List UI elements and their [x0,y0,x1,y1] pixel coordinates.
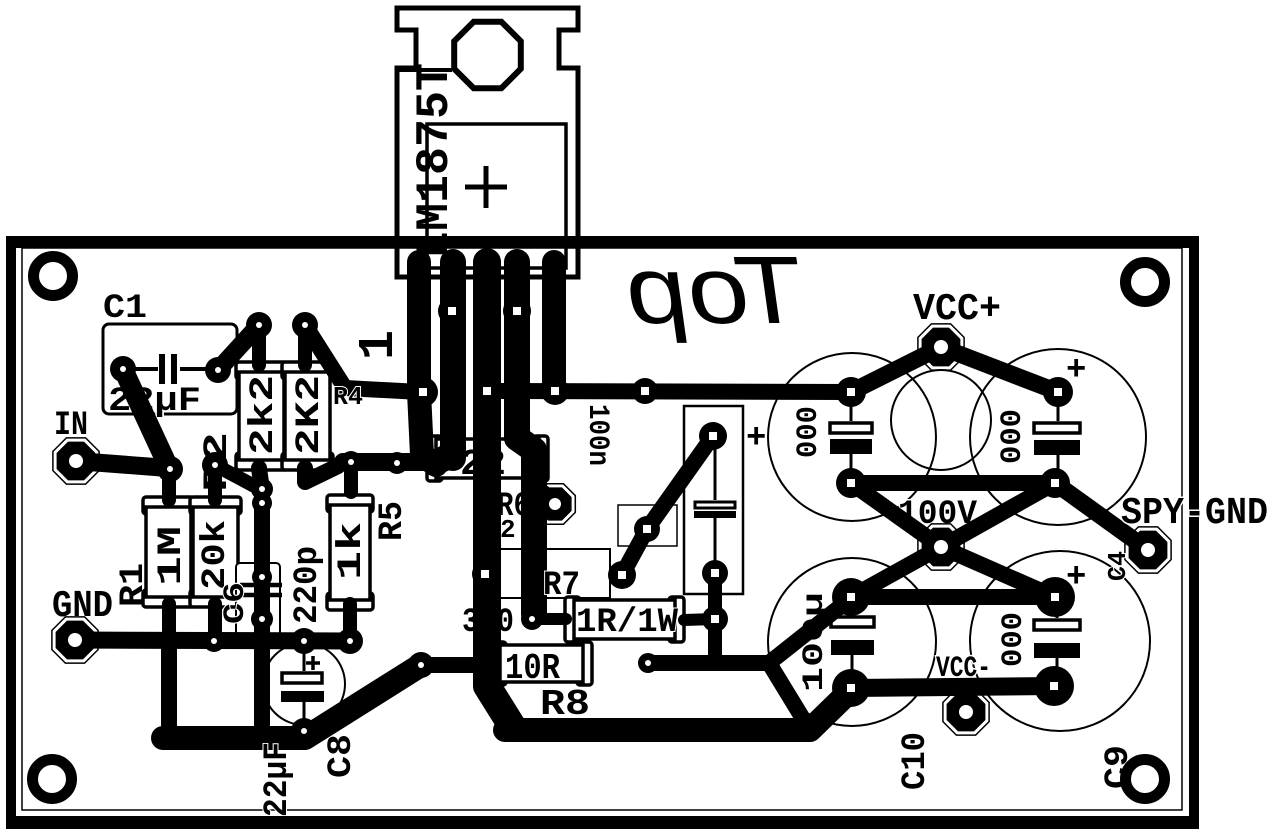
wire X junction arm UL [851,483,941,547]
wire output trace y391 [487,391,851,392]
wire IN to node [76,461,168,468]
via x262 b [252,567,272,587]
wire R5 bottom stub [343,604,357,641]
pad bus corner [408,652,434,678]
pad C10 bottom [832,669,870,707]
pad R7 left [472,561,498,587]
wire R2 bottom stub [208,604,222,641]
pad C8 bottom [291,718,317,744]
capacitor C3 outline rect [684,406,743,594]
small outline near R6 [618,505,677,546]
svg-text:R8: R8 [540,684,590,725]
wire pin4 down [517,262,534,614]
pad pin4 [503,297,531,325]
pad C2 bottom [836,468,866,498]
resistor body 22R [427,436,548,481]
wire R3 bottom to net [259,468,262,725]
wire trace y597 [851,589,1055,605]
svg-text:20k: 20k [197,520,235,590]
pad 1R1W left [521,608,543,630]
svg-text:SPY-GND: SPY-GND [1121,492,1268,535]
capacitor C10 body circle [768,558,936,726]
pad R7 right [608,561,636,589]
pad C2 top [836,377,866,407]
svg-text:C8: C8 [323,734,361,778]
svg-text:+: + [1066,559,1086,597]
wire C3 bottom stub [708,573,722,640]
svg-text:C6: C6 [219,582,253,624]
C6 plates [240,585,282,595]
pad R6 feedback [535,484,576,525]
via x262 a [252,493,272,513]
resistor R8 body (10R) [491,642,592,685]
svg-text:1: 1 [351,330,408,360]
capacitor C2 body circle [768,353,936,521]
pad C8 top [291,628,317,654]
wire bottom ground bus left [163,665,421,738]
wire trace y483 [851,475,1055,491]
pad C4 bottom [1040,468,1070,498]
pad R3 top [246,312,272,338]
C8 plus mark [306,656,320,670]
C10 plates [831,605,874,680]
C3 plates [694,446,736,563]
via y391 [632,378,658,404]
capacitor C6 outline (220p) [236,563,280,636]
wire pin4 to R6 pad [536,488,555,504]
svg-text:2: 2 [500,515,516,545]
pad pin2 [438,297,466,325]
pad C10 top [832,578,870,616]
pad node in [157,456,183,482]
mounting hole top-left [34,257,73,296]
svg-text:C1: C1 [103,290,147,328]
wire fork up to C10 top pad [769,598,851,663]
pad R5 bottom [337,628,363,654]
wire pad A to R3 top [252,325,266,365]
resistor R1 body (1M) [143,497,194,607]
pad pin3 [473,377,501,405]
wire pin5 down [542,262,566,391]
svg-text:1M: 1M [153,526,191,586]
pad R3 bottom [251,478,273,500]
svg-text:C10: C10 [897,732,935,790]
via y462 b [386,452,408,474]
wire R5 top stub [344,462,358,492]
via y462 a [340,451,362,473]
resistor R3 body (2k2) [236,362,287,470]
wire pad B to pin1 pad [305,325,420,392]
U1 pin leads [409,262,564,282]
capacitor C1 symbol [118,354,214,384]
wire R1 gnd drop [169,641,180,738]
svg-text:LM1875T: LM1875T [409,63,461,259]
svg-text:2K2: 2K2 [291,375,329,455]
wire fork down to bus [769,663,805,722]
wire R1 bottom stub [162,604,176,641]
svg-text:1R/1W: 1R/1W [576,604,679,642]
label Top mirrored [618,237,811,343]
wire VCC+ right diag [941,347,1058,392]
capacitor C8 body circle [263,643,345,725]
pad VCC- [943,689,989,735]
wire node2 to R2 top [208,465,222,500]
svg-text:100n: 100n [580,404,614,466]
C4 plates [1034,400,1080,475]
wire feedback trace y462 [343,452,448,462]
svg-text:VCC+: VCC+ [913,288,1001,331]
via gnd a [203,630,225,652]
svg-text:000: 000 [996,409,1030,464]
svg-text:R4: R4 [333,382,363,412]
svg-text:1k: 1k [333,522,371,580]
wire pad532 to 1R1W [532,613,566,625]
wire X junction arm DL [851,547,941,597]
wire C1 right pad to pad A [218,325,259,370]
wire GND bus [75,640,352,641]
svg-text:Top: Top [618,237,811,343]
wire pin2 elbow [436,458,453,465]
capacitor C9 body circle [970,551,1150,731]
resistor R7b body (1R/1W) [565,597,684,642]
svg-text:+: + [746,420,766,458]
wire C1 left pad to node [123,369,168,466]
svg-text:10R: 10R [505,648,560,689]
board outline (thick border) [6,236,1199,829]
svg-text:C9: C9 [1100,745,1138,789]
capacitor C3 body circle (100V) [891,370,991,470]
wire pad715 to blunt trace [708,640,722,663]
svg-text:220p: 220p [289,546,327,624]
via C3 diag [634,516,660,542]
wire pad1055,483 to SPY pad [1055,483,1148,550]
svg-text:R5: R5 [374,501,412,541]
pad output junction [918,524,964,570]
resistor R4 body (2k2) [282,362,333,470]
svg-text:000: 000 [792,406,826,458]
resistor R5 body (1k) [327,495,373,610]
pad C1 right [205,357,231,383]
wire C3 diag [622,436,713,575]
svg-text:C4: C4 [1103,551,1133,581]
pad 1R1W right [702,606,728,632]
svg-text:+: + [1066,352,1086,390]
mounting hole bottom-right [1126,760,1165,799]
pad R4 top [292,312,318,338]
wire trace y686 [851,686,1054,688]
pad C9 top [1035,577,1075,617]
C8 plates [281,648,324,723]
heatsink tab U1 (TO-220 outline) [397,8,578,277]
svg-text:R1: R1 [115,563,153,607]
mounting hole bottom-left [33,760,72,799]
svg-text:22µF: 22µF [259,742,297,817]
wire blunt trace y663 [648,655,769,671]
pad C3 bottom [702,560,728,586]
wire VCC+ left diag [851,347,941,392]
svg-text:GND: GND [52,585,113,628]
svg-text:000: 000 [997,612,1031,667]
capacitor C4 body circle [970,349,1146,525]
wire pad B to R4 top [298,325,312,365]
wire 1R1W to pad715 [684,619,715,620]
C2 plates [830,400,872,475]
mounting hole top-right [1126,263,1165,302]
pad C6 bottom [251,608,273,630]
wire pin3 down [487,262,512,726]
wire pin2 down [440,262,466,458]
resistor R7 outline [497,549,610,598]
pad C9 bottom [1034,666,1074,706]
pad C4 top [1043,377,1073,407]
C9 plates [1034,605,1080,678]
wire X junction arm DR [941,547,1055,597]
pad VCC+ [918,324,964,370]
wire node to R1 top [162,468,176,500]
pad GND [52,617,98,663]
svg-text:IN: IN [54,407,88,445]
wire pin1 down [419,262,436,465]
pad blunt end [638,653,658,673]
wire X junction arm UR [941,483,1055,547]
pad C3 top [699,422,727,450]
wire R4 bottom elbow [305,466,338,482]
pad pin5 [541,377,569,405]
U1 plus mark [465,166,507,208]
pad node2 [202,452,228,478]
pad SPY-GND [1125,527,1171,573]
svg-text:R7: R7 [543,567,580,605]
wire pad to pin3 column [421,657,487,673]
wire node to node2 diag [215,465,260,489]
pad pin1 [408,377,438,407]
pad IN [53,438,99,484]
resistor R2 body (20k) [190,497,241,607]
pad C1 left [110,356,136,382]
wire bottom ground bus right [505,690,851,730]
capacitor C1 outline [103,324,237,414]
svg-text:2k2: 2k2 [245,375,283,455]
board inner silk outline [22,248,1182,810]
